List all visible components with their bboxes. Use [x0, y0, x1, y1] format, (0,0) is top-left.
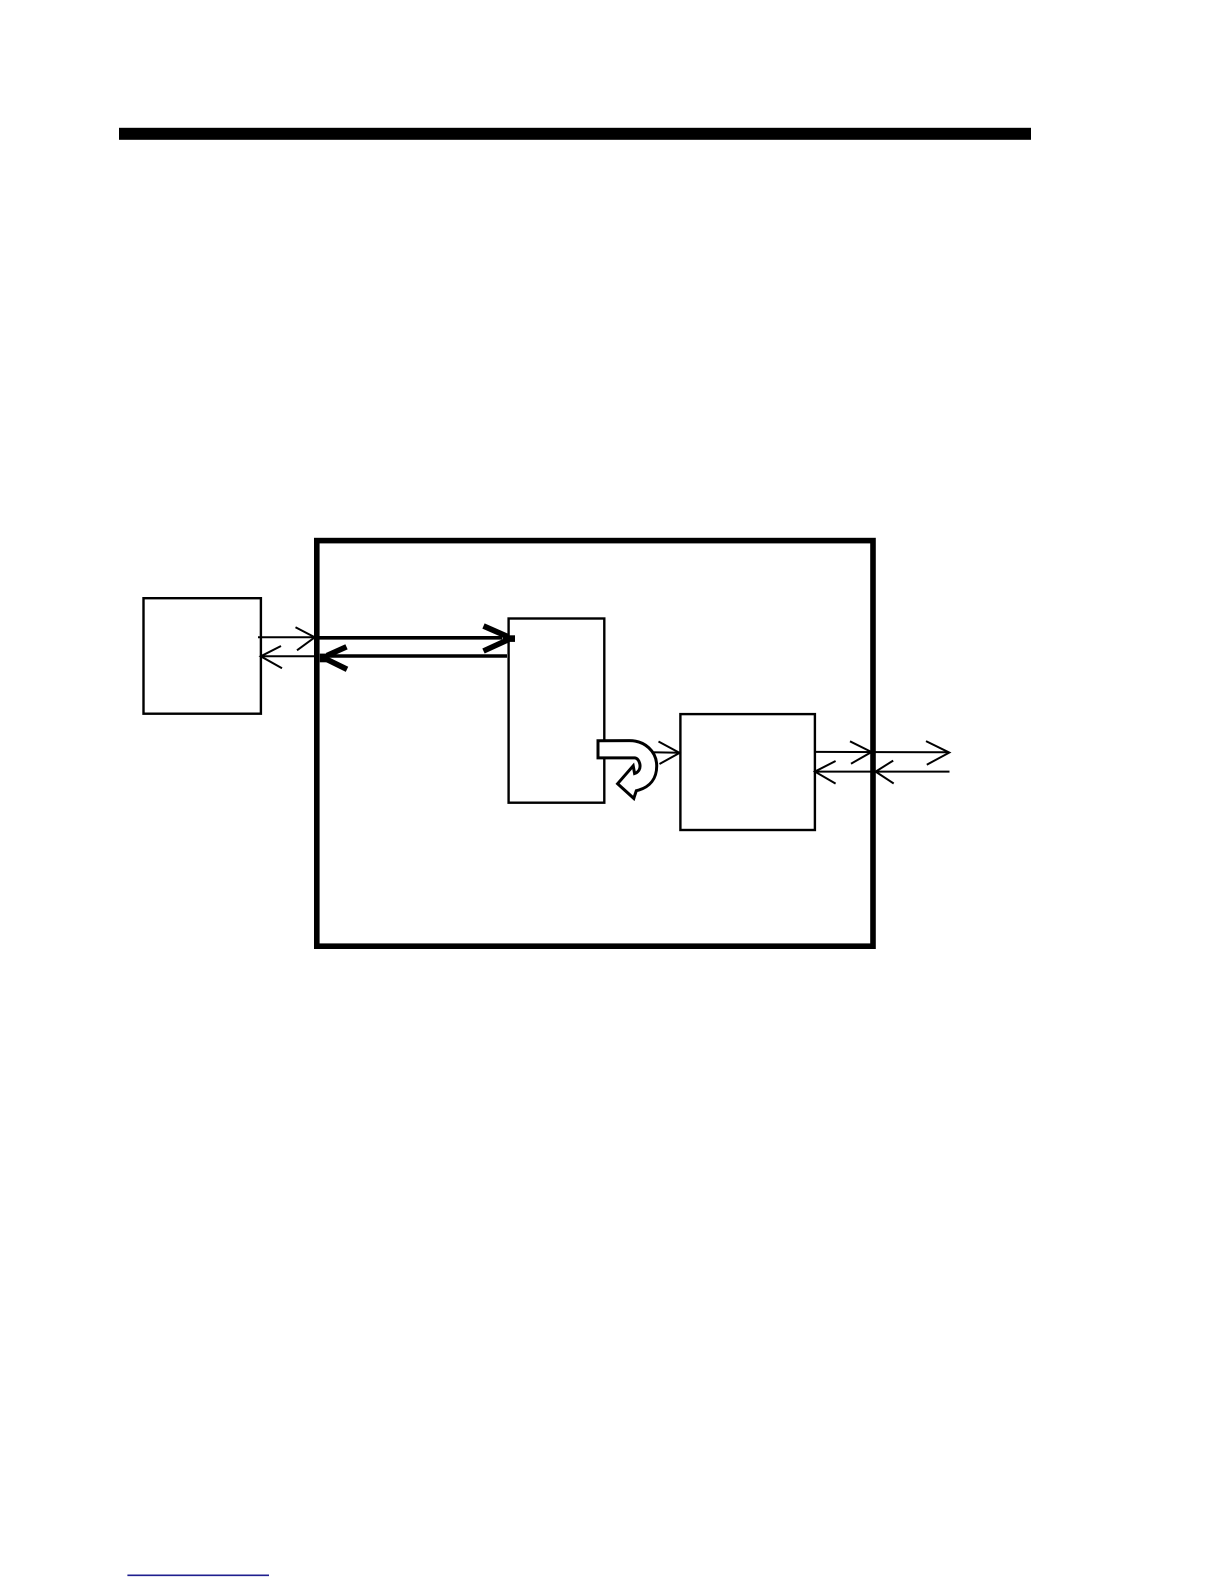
- footnote rule: [127, 1574, 269, 1576]
- arrow: curved arrow to right box (thin, right-pointing): [652, 742, 680, 765]
- thick arrow: outer box edge to tall box (right-pointing): [317, 626, 515, 651]
- left box: [144, 598, 261, 714]
- thick arrow: tall box to outer box edge (left-pointing): [320, 647, 507, 670]
- outer system box: [317, 541, 873, 947]
- right inner box: [680, 714, 815, 830]
- arrow: left box to outer box (thin, right-pointing): [258, 627, 315, 650]
- arrow: inward to right box (thin, left-pointing, two heads): [815, 761, 950, 784]
- arrow: right box outward (thin, right-pointing, two heads): [816, 741, 949, 765]
- tall inner box: [509, 619, 605, 803]
- top rule: [119, 128, 1031, 140]
- arrow: outer box to left box (thin, left-pointing): [261, 646, 315, 668]
- curved arrow (u-turn) from tall box: [598, 741, 657, 799]
